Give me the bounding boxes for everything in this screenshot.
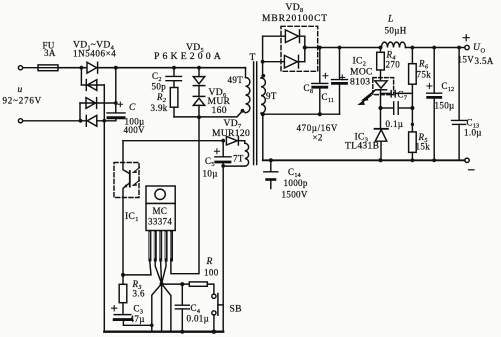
capacitor C5 10u	[214, 141, 231, 332]
svg-text:33374: 33374	[148, 217, 172, 227]
node R4 rail tap	[379, 46, 383, 50]
node C8 rail tap	[318, 46, 322, 50]
diode VD3	[80, 98, 116, 109]
diode VD4	[86, 115, 116, 126]
capacitor C2 50p	[166, 68, 182, 88]
svg-text:C11: C11	[322, 92, 334, 104]
node J	[221, 139, 225, 143]
svg-text:9T: 9T	[266, 91, 277, 101]
svg-text:O: O	[481, 48, 486, 55]
wire right column of bridge	[103, 85, 105, 332]
node L	[121, 273, 125, 277]
wire primary ground rail	[104, 331, 223, 333]
wire pin fan to source node	[155, 262, 166, 284]
node F	[172, 66, 176, 70]
node TL431 ground	[379, 158, 383, 162]
resistor R4 270	[377, 48, 385, 81]
optocoupler phototransistor (IC2 output) dashed box	[114, 163, 139, 198]
svg-text:u: u	[18, 84, 23, 95]
svg-text:160: 160	[212, 105, 227, 116]
svg-text:C7: C7	[398, 90, 408, 102]
resistor R2 3.9k	[170, 88, 178, 117]
capacitor C4 0.01u	[175, 284, 189, 332]
capacitor C7	[381, 91, 413, 97]
svg-text:MBR20100CT: MBR20100CT	[262, 14, 328, 24]
wire top rail	[58, 67, 246, 69]
node D	[79, 119, 83, 123]
pin 1	[148, 231, 151, 262]
wire secondary top rail	[305, 47, 465, 49]
svg-text:7T: 7T	[233, 154, 244, 164]
svg-text:8103: 8103	[350, 77, 370, 88]
light arrows from LED	[360, 91, 375, 104]
svg-text:50p: 50p	[152, 82, 167, 92]
svg-text:0.01µ: 0.01µ	[187, 314, 210, 324]
node K	[221, 164, 225, 168]
transformer primary 49T	[243, 68, 250, 113]
node G	[197, 66, 201, 70]
svg-text:1000p: 1000p	[284, 178, 308, 188]
svg-text:1.0µ: 1.0µ	[464, 128, 482, 138]
svg-text:15k: 15k	[416, 142, 431, 152]
diode VD8a	[263, 30, 305, 62]
node C11 rail tap	[338, 46, 342, 50]
svg-text:92~276V: 92~276V	[3, 96, 42, 106]
capacitor C1 100u 400V	[107, 103, 125, 121]
svg-text:MUR120: MUR120	[212, 128, 250, 139]
pin 5	[170, 231, 173, 262]
svg-text:3.5A: 3.5A	[475, 56, 494, 66]
LED of optocoupler	[375, 81, 387, 108]
node H (drain)	[197, 115, 201, 119]
capacitor C8 470u	[312, 48, 328, 115]
svg-text:400V: 400V	[124, 125, 146, 135]
svg-text:C: C	[129, 102, 136, 113]
wire source legs to ground rail	[152, 284, 171, 332]
node M (source)	[160, 282, 164, 286]
capacitor 0.1u	[381, 102, 413, 115]
wire clamp bottom rail	[174, 111, 243, 117]
rectifier VD8 MBR20100CT dashed box	[281, 26, 318, 71]
svg-text:1N5406×4: 1N5406×4	[73, 49, 116, 59]
wire vcc horizontal	[123, 140, 223, 142]
light arrows into base	[133, 168, 139, 186]
node B	[114, 66, 118, 70]
svg-text:0.1µ: 0.1µ	[386, 119, 404, 129]
node R5 ground	[411, 158, 415, 162]
diode VD7 MUR120	[226, 136, 244, 145]
transformer core	[254, 62, 257, 165]
node sec-top junction	[261, 60, 265, 64]
node divider mid	[411, 123, 414, 126]
node O	[180, 330, 184, 334]
capacitor C3 47u	[112, 303, 152, 326]
svg-text:50µH: 50µH	[385, 26, 407, 36]
diode VD1	[87, 62, 98, 73]
IC1 MC33374 TO-220 package	[146, 186, 175, 231]
wire secondary ground rail	[263, 159, 465, 161]
diode VD5 P6KE200A (TVS, down)	[193, 68, 204, 86]
node C (bridge + output)	[114, 68, 123, 107]
node C13 rail tap	[457, 46, 461, 50]
svg-text:47µ: 47µ	[130, 314, 145, 324]
resistor R3 3.6	[119, 275, 127, 303]
pin 2	[154, 231, 157, 262]
svg-text:C5: C5	[205, 156, 215, 168]
svg-text:×2: ×2	[313, 133, 323, 143]
transformer secondary 9T	[261, 36, 265, 114]
svg-text:3.9k: 3.9k	[151, 103, 168, 113]
node Q	[303, 45, 307, 49]
output terminal +	[463, 35, 469, 50]
svg-text:10µ: 10µ	[203, 169, 218, 179]
label u 92~276V	[3, 84, 42, 106]
capacitor C11 470u	[332, 48, 348, 115]
svg-text:L: L	[387, 14, 394, 25]
node R	[261, 112, 265, 116]
capacitor C12 150u	[427, 48, 442, 161]
resistor R6 75k	[409, 48, 417, 132]
wire pin1 to feedback node	[123, 262, 151, 275]
svg-text:VD8: VD8	[286, 2, 304, 14]
svg-text:SB: SB	[230, 304, 242, 315]
node SB ground	[212, 330, 216, 334]
svg-text:T: T	[250, 52, 256, 63]
wire left link 2	[79, 103, 81, 121]
node R6 rail tap	[411, 46, 415, 50]
svg-text:IC1: IC1	[125, 211, 138, 223]
node C14 rail tap	[269, 158, 273, 162]
svg-text:470µ/16V: 470µ/16V	[297, 123, 339, 133]
IC3 TL431B	[375, 108, 388, 160]
wire secondary down link	[262, 114, 264, 160]
wire feedback to R	[162, 283, 190, 285]
output terminal -	[465, 158, 474, 170]
transformer aux 7T	[223, 141, 248, 166]
phototransistor Q	[123, 141, 130, 276]
capacitor C14 1000p 1500V	[264, 160, 278, 188]
diode VD6 MUR160 (up)	[193, 86, 204, 117]
fuse FU 3A	[38, 65, 58, 71]
switch SB	[212, 294, 223, 332]
node T2	[410, 106, 414, 110]
input terminal top	[18, 66, 38, 70]
node S	[318, 112, 322, 116]
svg-text:270: 270	[386, 60, 401, 70]
node P	[180, 282, 184, 286]
svg-text:3A: 3A	[44, 48, 56, 58]
opto LED dashed box (IC2 MOC8103)	[373, 78, 394, 95]
svg-text:100: 100	[204, 268, 219, 278]
wire secondary mid rail	[263, 113, 340, 115]
wire drain vertical	[171, 117, 199, 274]
svg-text:49T: 49T	[228, 75, 244, 85]
svg-text:R: R	[206, 256, 213, 267]
svg-text:3.6: 3.6	[133, 289, 145, 299]
svg-text:P6KE200A: P6KE200A	[154, 51, 224, 62]
svg-text:TL431B: TL431B	[345, 141, 379, 152]
svg-text:C8: C8	[304, 83, 314, 95]
diode VD8b	[263, 55, 305, 68]
svg-text:1500V: 1500V	[282, 190, 308, 200]
diode VD2	[81, 80, 104, 91]
node sec-coil-top junction	[261, 74, 265, 78]
svg-text:15V: 15V	[458, 55, 475, 65]
label Uo 15V 3.5A	[458, 42, 494, 66]
svg-text:MC: MC	[153, 206, 168, 216]
input terminal bottom	[18, 119, 86, 123]
wire left link 1	[80, 68, 82, 85]
pin 4	[165, 231, 168, 262]
resistor R5 15k	[409, 132, 417, 160]
svg-text:75k: 75k	[417, 70, 432, 80]
node A	[80, 66, 84, 70]
node N	[150, 324, 154, 328]
label VD1~VD4 1N5406x4	[73, 40, 116, 59]
resistor R 100	[189, 282, 214, 294]
inductor L 50uH	[382, 42, 406, 47]
node I (coil bottom)	[241, 109, 245, 113]
node C12 rail tap	[432, 46, 436, 50]
capacitor C13 1.0u	[452, 48, 467, 161]
svg-text:C12: C12	[442, 81, 455, 93]
svg-text:150µ: 150µ	[435, 101, 455, 111]
node T1	[378, 106, 382, 110]
pin 3	[159, 231, 162, 262]
node E	[102, 119, 106, 123]
node C12 ground	[432, 158, 436, 162]
